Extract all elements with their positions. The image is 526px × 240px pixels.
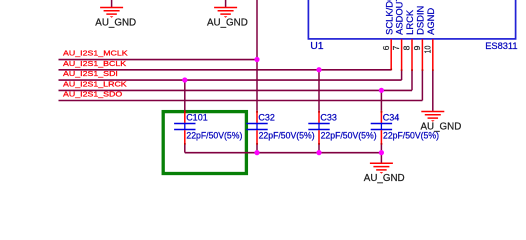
junction rail/C33	[316, 150, 321, 155]
wire C34 bottom drop to ground	[380, 145, 382, 163]
wire AU_I2S1_SDO	[59, 100, 423, 102]
wire AU_I2S1_MCLK	[59, 59, 258, 61]
junction MCLK/C32	[254, 57, 259, 62]
svg-text:C34: C34	[383, 113, 400, 123]
pin 6 lead	[390, 39, 392, 70]
svg-text:10: 10	[422, 45, 432, 53]
wire SDI drop to C101	[184, 80, 186, 111]
junction LRCK/C34	[379, 88, 384, 93]
ground G3 arrow	[431, 120, 435, 122]
svg-text:U1: U1	[310, 40, 324, 52]
wire BCLK drop to C33	[318, 70, 320, 111]
pin 10 lead	[432, 39, 434, 70]
svg-text:22pF/50V(5%): 22pF/50V(5%)	[259, 131, 315, 141]
wire C32 bottom drop	[256, 145, 258, 153]
svg-text:DSDIN: DSDIN	[414, 6, 425, 35]
capacitor C32	[246, 111, 267, 145]
pin 9 lead	[421, 39, 423, 70]
ground G1 arrow	[110, 16, 114, 18]
junction rail/C32	[254, 150, 259, 155]
wire to ground G2 (from cut-off component above)	[225, 0, 227, 7]
svg-text:AU_I2S1_MCLK: AU_I2S1_MCLK	[63, 49, 128, 58]
wire AU_I2S1_BCLK	[59, 69, 392, 71]
capacitor C33	[308, 111, 329, 145]
svg-text:LRCK: LRCK	[404, 9, 415, 35]
svg-text:22pF/50V(5%): 22pF/50V(5%)	[383, 131, 439, 141]
capacitor C101	[174, 111, 195, 145]
wire pin9 drop	[421, 70, 423, 100]
wire pin8 drop	[411, 70, 413, 90]
ground G4 AU_GND (cap rail)	[370, 163, 393, 170]
pin tip hotspots	[184, 69, 434, 145]
svg-text:C101: C101	[186, 113, 208, 123]
svg-text:AU_GND: AU_GND	[95, 18, 136, 29]
wire AU_I2S1_SDI	[59, 79, 402, 81]
wire ground rail	[185, 152, 382, 154]
junction SDI/C101	[182, 77, 187, 82]
svg-text:C32: C32	[258, 113, 275, 123]
highlight box around C101	[163, 112, 246, 174]
wire C33 bottom drop	[318, 145, 320, 153]
svg-text:C33: C33	[320, 113, 337, 123]
ground G4 arrow	[380, 172, 384, 174]
svg-text:6: 6	[381, 45, 391, 50]
svg-text:22pF/50V(5%): 22pF/50V(5%)	[321, 131, 377, 141]
wire pin7 drop	[401, 70, 403, 80]
pin 8 lead	[411, 39, 413, 70]
svg-text:AGND: AGND	[425, 8, 436, 35]
svg-text:ASDOUT: ASDOUT	[394, 0, 405, 35]
svg-text:AU_GND: AU_GND	[364, 173, 405, 184]
pin 7 lead	[401, 39, 403, 70]
wire AU_I2S1_LRCK	[59, 89, 413, 91]
ground G3 AU_GND (pin 10)	[421, 112, 444, 119]
wire C101 bottom drop	[184, 145, 186, 153]
IC U1 body (ES8311, top cut off)	[308, 0, 515, 39]
svg-text:AU_GND: AU_GND	[207, 18, 248, 29]
wire MCLK riser to C32 and top component	[256, 0, 258, 111]
ground G2 arrow	[224, 16, 228, 18]
junction rail/C34	[379, 150, 384, 155]
wire LRCK drop to C34	[380, 90, 382, 111]
wire to ground G1 (from cut-off component above)	[111, 0, 113, 7]
wire pin10 drop to ground	[432, 70, 434, 111]
ground G2 AU_GND	[214, 8, 237, 15]
svg-text:9: 9	[412, 45, 422, 50]
ground G1 AU_GND	[100, 8, 123, 15]
svg-text:22pF/50V(5%): 22pF/50V(5%)	[186, 131, 242, 141]
svg-text:SCLK/DOUT: SCLK/DOUT	[383, 0, 394, 35]
capacitor C34	[371, 111, 392, 145]
svg-text:8: 8	[402, 45, 412, 50]
junction BCLK/C33	[316, 67, 321, 72]
svg-text:ES8311: ES8311	[485, 41, 517, 51]
svg-text:7: 7	[391, 45, 401, 50]
